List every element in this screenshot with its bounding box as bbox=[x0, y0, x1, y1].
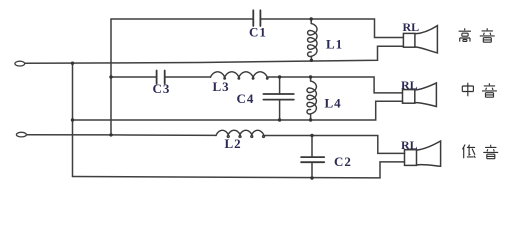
wire: mid-branch bottom rail bbox=[73, 101, 403, 120]
wire: L3 to mid speaker bbox=[268, 77, 403, 93]
wire: C3 to L3 bbox=[165, 76, 211, 78]
wire: terminal - lead bbox=[27, 134, 111, 136]
svg-text:C4: C4 bbox=[237, 91, 255, 106]
wire: C2 top lead bbox=[311, 136, 313, 158]
svg-text:L4: L4 bbox=[325, 96, 342, 111]
node: L4 top bbox=[309, 75, 312, 78]
wire: left vertical bus from + bbox=[72, 63, 74, 176]
capacitor C3 bbox=[157, 71, 165, 84]
svg-text:C2: C2 bbox=[334, 154, 352, 169]
svg-text:L1: L1 bbox=[326, 37, 343, 52]
inductor L1 bbox=[308, 24, 317, 57]
wire: L2 to bottom speaker bbox=[265, 136, 405, 154]
wire: C2 bottom lead bbox=[311, 162, 313, 178]
capacitor C2 bbox=[301, 157, 324, 162]
capacitor C1 bbox=[253, 10, 260, 26]
svg-text:C1: C1 bbox=[249, 25, 267, 40]
wire: right vertical bus from - bbox=[110, 19, 112, 135]
speaker RL (tweeter) bbox=[403, 33, 415, 47]
wire: C4 bottom lead bbox=[279, 100, 281, 120]
svg-text:L3: L3 bbox=[213, 79, 230, 94]
wire: L4 bottom lead bbox=[310, 114, 312, 120]
node: L4 bottom bbox=[309, 118, 312, 121]
node: mid top rail tap bbox=[109, 75, 112, 78]
node: + feed junction bbox=[71, 62, 74, 65]
node: C2 top bbox=[310, 134, 313, 137]
wire: top rail with C1 gap bbox=[111, 18, 253, 20]
input terminal + bbox=[15, 61, 25, 66]
inductor L2 bbox=[216, 130, 265, 137]
inductor L3 bbox=[211, 72, 269, 79]
svg-text:C3: C3 bbox=[153, 81, 171, 96]
input terminal - bbox=[16, 132, 26, 137]
wire: bottom-branch bottom rail bbox=[73, 162, 405, 178]
svg-text:RL: RL bbox=[401, 78, 418, 92]
node: mid bottom rail tap bbox=[71, 118, 74, 121]
wire: C4 top lead bbox=[279, 77, 281, 94]
wire bbox=[260, 19, 403, 38]
wire: L1 bottom lead bbox=[310, 57, 312, 61]
inductor L4 bbox=[307, 81, 316, 114]
node: C4 bottom bbox=[278, 118, 281, 121]
svg-text:RL: RL bbox=[403, 20, 420, 34]
node: L1 bottom bbox=[310, 59, 313, 62]
svg-text:L2: L2 bbox=[225, 136, 242, 151]
wire: terminal + to top-branch bottom rail bbox=[25, 46, 404, 63]
node: C2 bottom bbox=[310, 176, 313, 179]
text 低音 (woofer) bbox=[463, 145, 476, 159]
wire: L1 top lead bbox=[310, 19, 312, 24]
capacitor C4 bbox=[263, 94, 293, 100]
svg-text:RL: RL bbox=[401, 138, 418, 152]
wire: L4 top lead bbox=[310, 77, 312, 81]
node: - bus bottom junction bbox=[109, 133, 112, 136]
text 高音 (tweeter) bbox=[459, 28, 471, 41]
text 中音 (midrange) bbox=[462, 83, 473, 97]
speaker RL (woofer) bbox=[405, 150, 417, 166]
wire: bottom top rail to L2 bbox=[111, 134, 216, 137]
wire: mid top rail to C3 bbox=[111, 76, 157, 78]
node: C4 top bbox=[278, 75, 281, 78]
node: L1 top bbox=[310, 17, 313, 20]
speaker RL (midrange) bbox=[403, 90, 415, 104]
